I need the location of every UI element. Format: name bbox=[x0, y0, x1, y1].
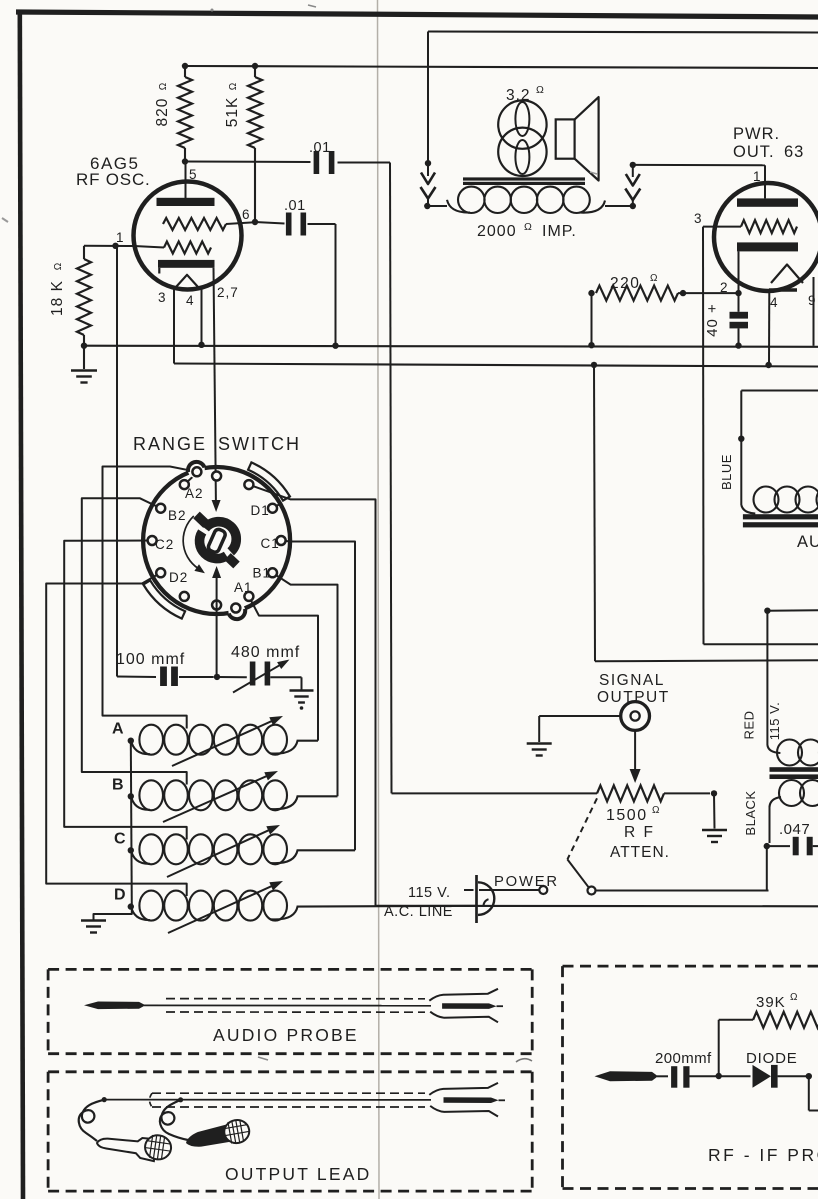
svg-text:Ω: Ω bbox=[228, 82, 239, 90]
svg-text:BLUE: BLUE bbox=[719, 454, 734, 490]
svg-text:C: C bbox=[114, 830, 126, 847]
svg-text:BLACK: BLACK bbox=[743, 790, 758, 835]
svg-text:D2: D2 bbox=[169, 570, 188, 585]
svg-text:D1: D1 bbox=[251, 503, 270, 518]
svg-text:9: 9 bbox=[808, 293, 817, 308]
svg-text:3.2: 3.2 bbox=[506, 87, 531, 104]
svg-text:2,7: 2,7 bbox=[217, 285, 239, 300]
svg-text:1: 1 bbox=[116, 230, 125, 245]
svg-text:B: B bbox=[112, 776, 124, 793]
svg-text:Ω: Ω bbox=[524, 221, 533, 233]
svg-text:1500: 1500 bbox=[606, 807, 648, 824]
svg-text:PWR.: PWR. bbox=[733, 125, 780, 143]
svg-text:OUTPUT: OUTPUT bbox=[597, 689, 670, 706]
svg-text:RF OSC.: RF OSC. bbox=[76, 170, 151, 189]
svg-text:A1: A1 bbox=[234, 580, 253, 595]
svg-text:RF - IF PRO: RF - IF PRO bbox=[708, 1145, 818, 1165]
svg-text:DIODE: DIODE bbox=[746, 1050, 798, 1067]
svg-text:820: 820 bbox=[154, 98, 171, 127]
svg-text:SWITCH: SWITCH bbox=[218, 434, 301, 454]
svg-text:RED: RED bbox=[742, 711, 757, 740]
svg-text:B2: B2 bbox=[168, 508, 187, 523]
svg-text:A.C. LINE: A.C. LINE bbox=[384, 904, 453, 920]
svg-text:2000: 2000 bbox=[477, 223, 517, 240]
svg-text:Ω: Ω bbox=[536, 84, 545, 96]
svg-text:OUTPUT LEAD: OUTPUT LEAD bbox=[225, 1164, 371, 1184]
svg-text:C2: C2 bbox=[155, 537, 174, 552]
svg-text:220: 220 bbox=[610, 275, 640, 292]
svg-text:Ω: Ω bbox=[158, 82, 169, 90]
svg-text:D: D bbox=[114, 887, 126, 904]
svg-text:.047: .047 bbox=[779, 821, 810, 838]
svg-text:RANGE: RANGE bbox=[133, 434, 207, 454]
svg-text:Ω: Ω bbox=[53, 262, 64, 270]
svg-text:115 V.: 115 V. bbox=[408, 885, 451, 901]
svg-text:1: 1 bbox=[753, 169, 762, 184]
svg-text:B1: B1 bbox=[253, 566, 272, 581]
svg-text:.01: .01 bbox=[309, 140, 331, 156]
svg-text:ATTEN.: ATTEN. bbox=[610, 844, 670, 861]
svg-text:3: 3 bbox=[158, 290, 167, 305]
svg-text:40 +: 40 + bbox=[704, 303, 721, 337]
svg-text:18 K: 18 K bbox=[49, 280, 66, 316]
svg-text:OUT.: OUT. bbox=[733, 143, 775, 161]
svg-text:4: 4 bbox=[186, 293, 195, 308]
svg-text:4: 4 bbox=[770, 295, 779, 310]
svg-text:IMP.: IMP. bbox=[542, 223, 577, 240]
svg-text:200mmf: 200mmf bbox=[655, 1050, 712, 1067]
svg-text:AUDIO PROBE: AUDIO PROBE bbox=[213, 1025, 359, 1045]
svg-text:A: A bbox=[112, 721, 124, 738]
svg-text:115 V.: 115 V. bbox=[767, 702, 782, 740]
svg-text:51K: 51K bbox=[224, 97, 241, 128]
svg-text:POWER: POWER bbox=[494, 874, 559, 890]
svg-text:39K: 39K bbox=[756, 994, 786, 1011]
svg-text:.01: .01 bbox=[284, 198, 306, 214]
svg-text:SIGNAL: SIGNAL bbox=[599, 672, 665, 689]
svg-text:6: 6 bbox=[242, 207, 251, 222]
svg-text:C1: C1 bbox=[261, 536, 280, 551]
svg-text:63: 63 bbox=[784, 143, 804, 161]
svg-text:Ω: Ω bbox=[650, 273, 658, 284]
svg-text:Ω: Ω bbox=[652, 805, 660, 816]
svg-text:R F: R F bbox=[624, 824, 655, 841]
svg-text:A2: A2 bbox=[185, 486, 204, 501]
svg-text:AU: AU bbox=[797, 533, 818, 551]
svg-text:100 mmf: 100 mmf bbox=[116, 651, 185, 668]
svg-text:3: 3 bbox=[694, 211, 703, 226]
svg-text:Ω: Ω bbox=[790, 992, 798, 1003]
svg-text:480 mmf: 480 mmf bbox=[231, 644, 300, 661]
